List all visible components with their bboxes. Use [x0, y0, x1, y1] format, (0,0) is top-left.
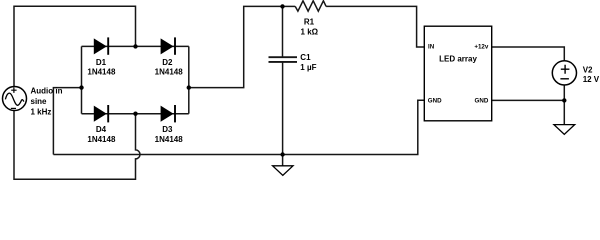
svg-text:1 µF: 1 µF	[300, 63, 316, 72]
LED array box U1	[424, 26, 491, 121]
svg-text:sine: sine	[31, 97, 48, 106]
wire C1 top branch	[282, 6, 284, 57]
svg-text:GND: GND	[475, 97, 489, 104]
svg-text:12 V: 12 V	[583, 75, 600, 84]
junction node bridge top	[133, 44, 137, 48]
wire V2 bottom to ground	[563, 85, 565, 125]
label V2 12 V	[583, 65, 600, 84]
label D3	[155, 125, 184, 144]
junction node R1 C1	[280, 4, 284, 8]
wire LED array +12v to V2	[492, 47, 565, 61]
svg-text:D3: D3	[162, 125, 173, 134]
label R1	[301, 18, 319, 37]
junction node ground rail	[280, 152, 284, 156]
svg-text:D2: D2	[162, 58, 173, 67]
wire ground stub from bridge left mid	[53, 88, 81, 155]
wire bridge bottom rail	[82, 113, 189, 115]
label D1	[87, 58, 116, 77]
wire C1 bottom to ground	[282, 62, 284, 166]
AC source V1	[3, 87, 27, 111]
wire resistor to LED array IN	[326, 6, 424, 47]
junction node V2 ground	[562, 98, 566, 102]
label V1 Audio in sine 1 kHz	[31, 87, 63, 117]
wire bridge left vertical	[81, 46, 83, 113]
ground symbol right	[554, 125, 575, 135]
wire bridge right vertical	[188, 46, 190, 113]
svg-text:1N4148: 1N4148	[87, 135, 116, 144]
svg-text:D4: D4	[96, 125, 107, 134]
diode D4	[94, 105, 108, 122]
junction node bridge left mid	[79, 85, 83, 89]
diode D1	[94, 37, 108, 54]
diode D3	[161, 105, 175, 122]
junction node bridge right mid	[187, 85, 191, 89]
svg-text:R1: R1	[304, 18, 315, 27]
wire ground rail to LED array GND	[53, 100, 424, 154]
resistor R1	[295, 1, 326, 11]
label D4	[87, 125, 116, 144]
svg-text:C1: C1	[300, 53, 311, 62]
wire LED array GND right to V2 minus	[492, 99, 565, 101]
wire V1 top to bridge top junction	[14, 6, 136, 87]
svg-text:GND: GND	[428, 97, 442, 104]
svg-text:D1: D1	[96, 58, 107, 67]
svg-text:IN: IN	[428, 44, 435, 51]
DC source V2	[552, 61, 576, 85]
svg-text:1 kΩ: 1 kΩ	[301, 28, 319, 37]
label D2	[155, 58, 184, 77]
svg-text:LED array: LED array	[439, 54, 477, 63]
svg-text:1 kHz: 1 kHz	[31, 108, 52, 117]
wire V1 return with hop over ground rail	[14, 110, 140, 179]
svg-text:1N4148: 1N4148	[155, 135, 184, 144]
label C1	[300, 53, 316, 72]
svg-text:1N4148: 1N4148	[87, 68, 116, 77]
svg-text:Audio in: Audio in	[31, 87, 63, 96]
svg-text:V2: V2	[583, 65, 593, 74]
diode D2	[161, 37, 175, 54]
svg-text:+12v: +12v	[474, 44, 488, 51]
wire R1 node to resistor	[283, 5, 296, 7]
svg-text:1N4148: 1N4148	[155, 68, 184, 77]
junction node bridge bottom	[133, 112, 137, 116]
wire bridge top rail	[82, 45, 189, 47]
ground symbol center	[273, 166, 293, 176]
capacitor C1	[269, 57, 298, 62]
wire bridge right mid to R1 node	[189, 6, 283, 87]
